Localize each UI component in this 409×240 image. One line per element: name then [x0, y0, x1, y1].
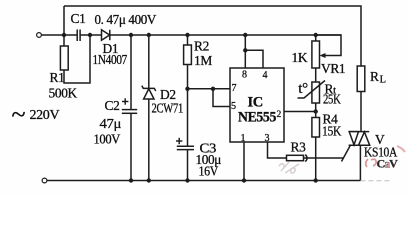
svg-text:C2: C2 — [105, 98, 120, 113]
resistor R2 branch — [187, 35, 189, 45]
svg-text:3: 3 — [265, 133, 270, 144]
svg-text:15K: 15K — [322, 124, 342, 139]
wire pin5 — [213, 89, 230, 107]
svg-text:RL: RL — [370, 69, 386, 86]
node: pin8 rail — [243, 33, 247, 37]
node: R4 bottom — [314, 178, 318, 182]
node: pin4 tap — [243, 48, 247, 52]
resistor R2 — [184, 45, 192, 65]
svg-text:R2: R2 — [194, 39, 209, 54]
node: D2 top — [147, 33, 151, 37]
svg-text:2: 2 — [277, 110, 282, 120]
wire main rail right — [110, 34, 341, 36]
capacitor C2 branch wire — [130, 35, 132, 110]
node: D2 bottom — [147, 178, 151, 182]
svg-text:16V: 16V — [199, 164, 219, 179]
wire pin2 — [284, 111, 316, 113]
thermistor Rt — [312, 82, 320, 103]
wire top-left vertical — [63, 6, 65, 46]
capacitor C3 — [177, 145, 194, 147]
bottom rail — [47, 180, 360, 182]
zener D2 branch wire — [148, 35, 150, 88]
wire VR1 wiper loop — [316, 35, 341, 56]
capacitor C2 — [122, 109, 137, 111]
top border wire — [64, 6, 361, 66]
zener D2 — [142, 86, 156, 91]
IC U1 NE555 box — [230, 68, 284, 142]
node: C3 bottom — [185, 178, 189, 182]
plus sign C2 — [122, 98, 182, 144]
svg-text:100V: 100V — [94, 132, 121, 147]
node: pin2/Rt/R4 — [314, 109, 318, 113]
triac V — [349, 131, 370, 133]
wire gate — [304, 157, 345, 159]
svg-text:5: 5 — [231, 101, 236, 112]
svg-text:220V: 220V — [30, 108, 60, 123]
svg-text:0. 47μ 400V: 0. 47μ 400V — [95, 12, 157, 27]
wire pin3 — [268, 142, 287, 158]
wire pin7 — [188, 88, 231, 90]
svg-text:R3: R3 — [291, 140, 307, 155]
svg-text:4: 4 — [263, 70, 268, 81]
terminal top-left — [37, 33, 42, 38]
svg-text:1K: 1K — [292, 50, 308, 65]
potentiometer VR1 — [312, 41, 320, 68]
pin numbers — [231, 70, 270, 145]
wire pin4 — [245, 50, 263, 68]
svg-text:VR1: VR1 — [321, 61, 345, 76]
node: C2 top — [129, 33, 133, 37]
resistor R1 — [60, 46, 68, 70]
wire pin1 — [243, 142, 245, 181]
wire C1 to D1 — [80, 34, 101, 36]
svg-text:1M: 1M — [194, 53, 212, 68]
svg-text:8: 8 — [242, 70, 247, 81]
node: R1 loop top — [88, 33, 92, 37]
resistor RL — [357, 66, 365, 92]
node: C2 bottom — [129, 178, 133, 182]
svg-text:500K: 500K — [49, 86, 78, 101]
svg-text:R1: R1 — [50, 70, 65, 85]
node: pin5 tap — [211, 87, 215, 91]
svg-text:7: 7 — [232, 83, 237, 94]
svg-text:1N4007: 1N4007 — [93, 52, 128, 67]
node: R2 top — [185, 33, 189, 37]
svg-text:CaV: CaV — [377, 157, 399, 171]
resistor R4 — [312, 118, 320, 138]
watermark near KS10A — [366, 146, 405, 171]
diode D1 — [102, 30, 110, 40]
svg-text:25K: 25K — [323, 92, 341, 107]
resistor R3 — [287, 155, 304, 160]
svg-text:~: ~ — [12, 100, 26, 129]
wire pin8 — [244, 35, 246, 68]
svg-text:t°: t° — [298, 81, 308, 97]
faint bottom rail continuation — [360, 180, 392, 182]
svg-text:47μ: 47μ — [100, 116, 122, 131]
svg-text:C1: C1 — [71, 11, 86, 26]
node: R2/C3/pin7 — [185, 87, 189, 91]
svg-text:IC: IC — [248, 95, 263, 111]
node: border/R1 junction — [62, 33, 66, 37]
svg-text:2CW71: 2CW71 — [152, 101, 184, 116]
wire R1 loop — [64, 35, 90, 83]
watermark near R3 — [279, 162, 299, 173]
potentiometer VR1 branch — [315, 35, 317, 41]
node: VR1 top — [314, 33, 318, 37]
capacitor C1 — [76, 30, 78, 42]
svg-text:1: 1 — [241, 133, 246, 144]
terminal bottom-left — [42, 178, 47, 183]
node: pin1 bottom — [242, 178, 246, 182]
plus sign C3 — [176, 140, 182, 142]
wire main rail left — [42, 34, 78, 36]
svg-text:NE555: NE555 — [238, 110, 276, 126]
